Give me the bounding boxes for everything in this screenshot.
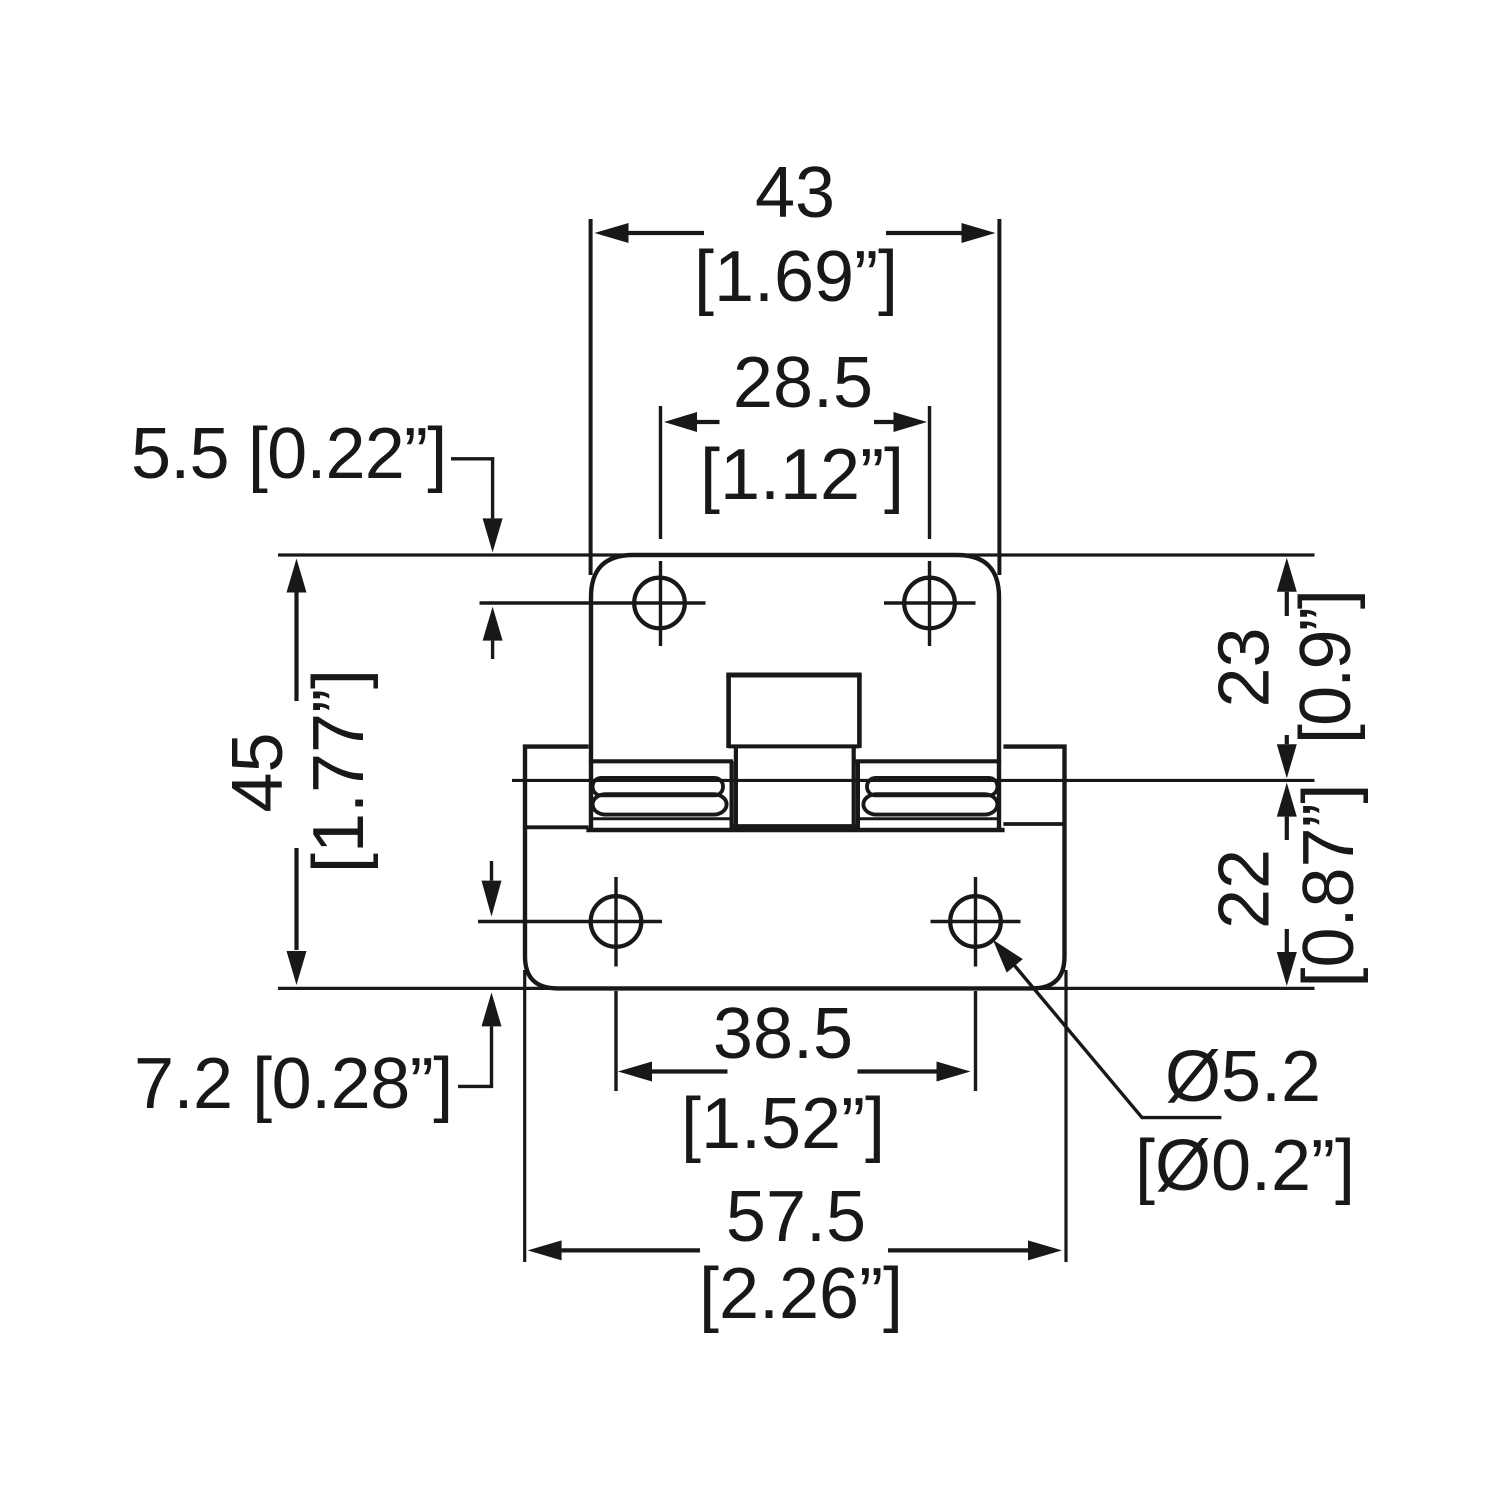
svg-text:[1.12”]: [1.12”]: [700, 435, 904, 515]
svg-text:[1.77”]: [1.77”]: [299, 669, 379, 873]
svg-text:45: 45: [218, 732, 298, 812]
svg-text:22: 22: [1205, 849, 1285, 929]
svg-text:[1.69”]: [1.69”]: [694, 237, 898, 317]
svg-text:[Ø0.2”]: [Ø0.2”]: [1135, 1126, 1355, 1206]
svg-text:[1.52”]: [1.52”]: [681, 1084, 885, 1164]
svg-text:[0.9”]: [0.9”]: [1286, 591, 1366, 744]
svg-text:Ø5.2: Ø5.2: [1165, 1037, 1321, 1117]
svg-text:[2.26”]: [2.26”]: [699, 1254, 903, 1334]
svg-text:57.5: 57.5: [726, 1177, 866, 1257]
svg-text:5.5 [0.22”]: 5.5 [0.22”]: [131, 414, 446, 494]
svg-text:[0.87”]: [0.87”]: [1289, 783, 1369, 987]
svg-text:28.5: 28.5: [733, 343, 873, 423]
svg-text:43: 43: [755, 153, 835, 233]
svg-text:7.2 [0.28”]: 7.2 [0.28”]: [134, 1044, 453, 1124]
svg-text:38.5: 38.5: [713, 994, 853, 1074]
svg-text:23: 23: [1205, 627, 1285, 707]
